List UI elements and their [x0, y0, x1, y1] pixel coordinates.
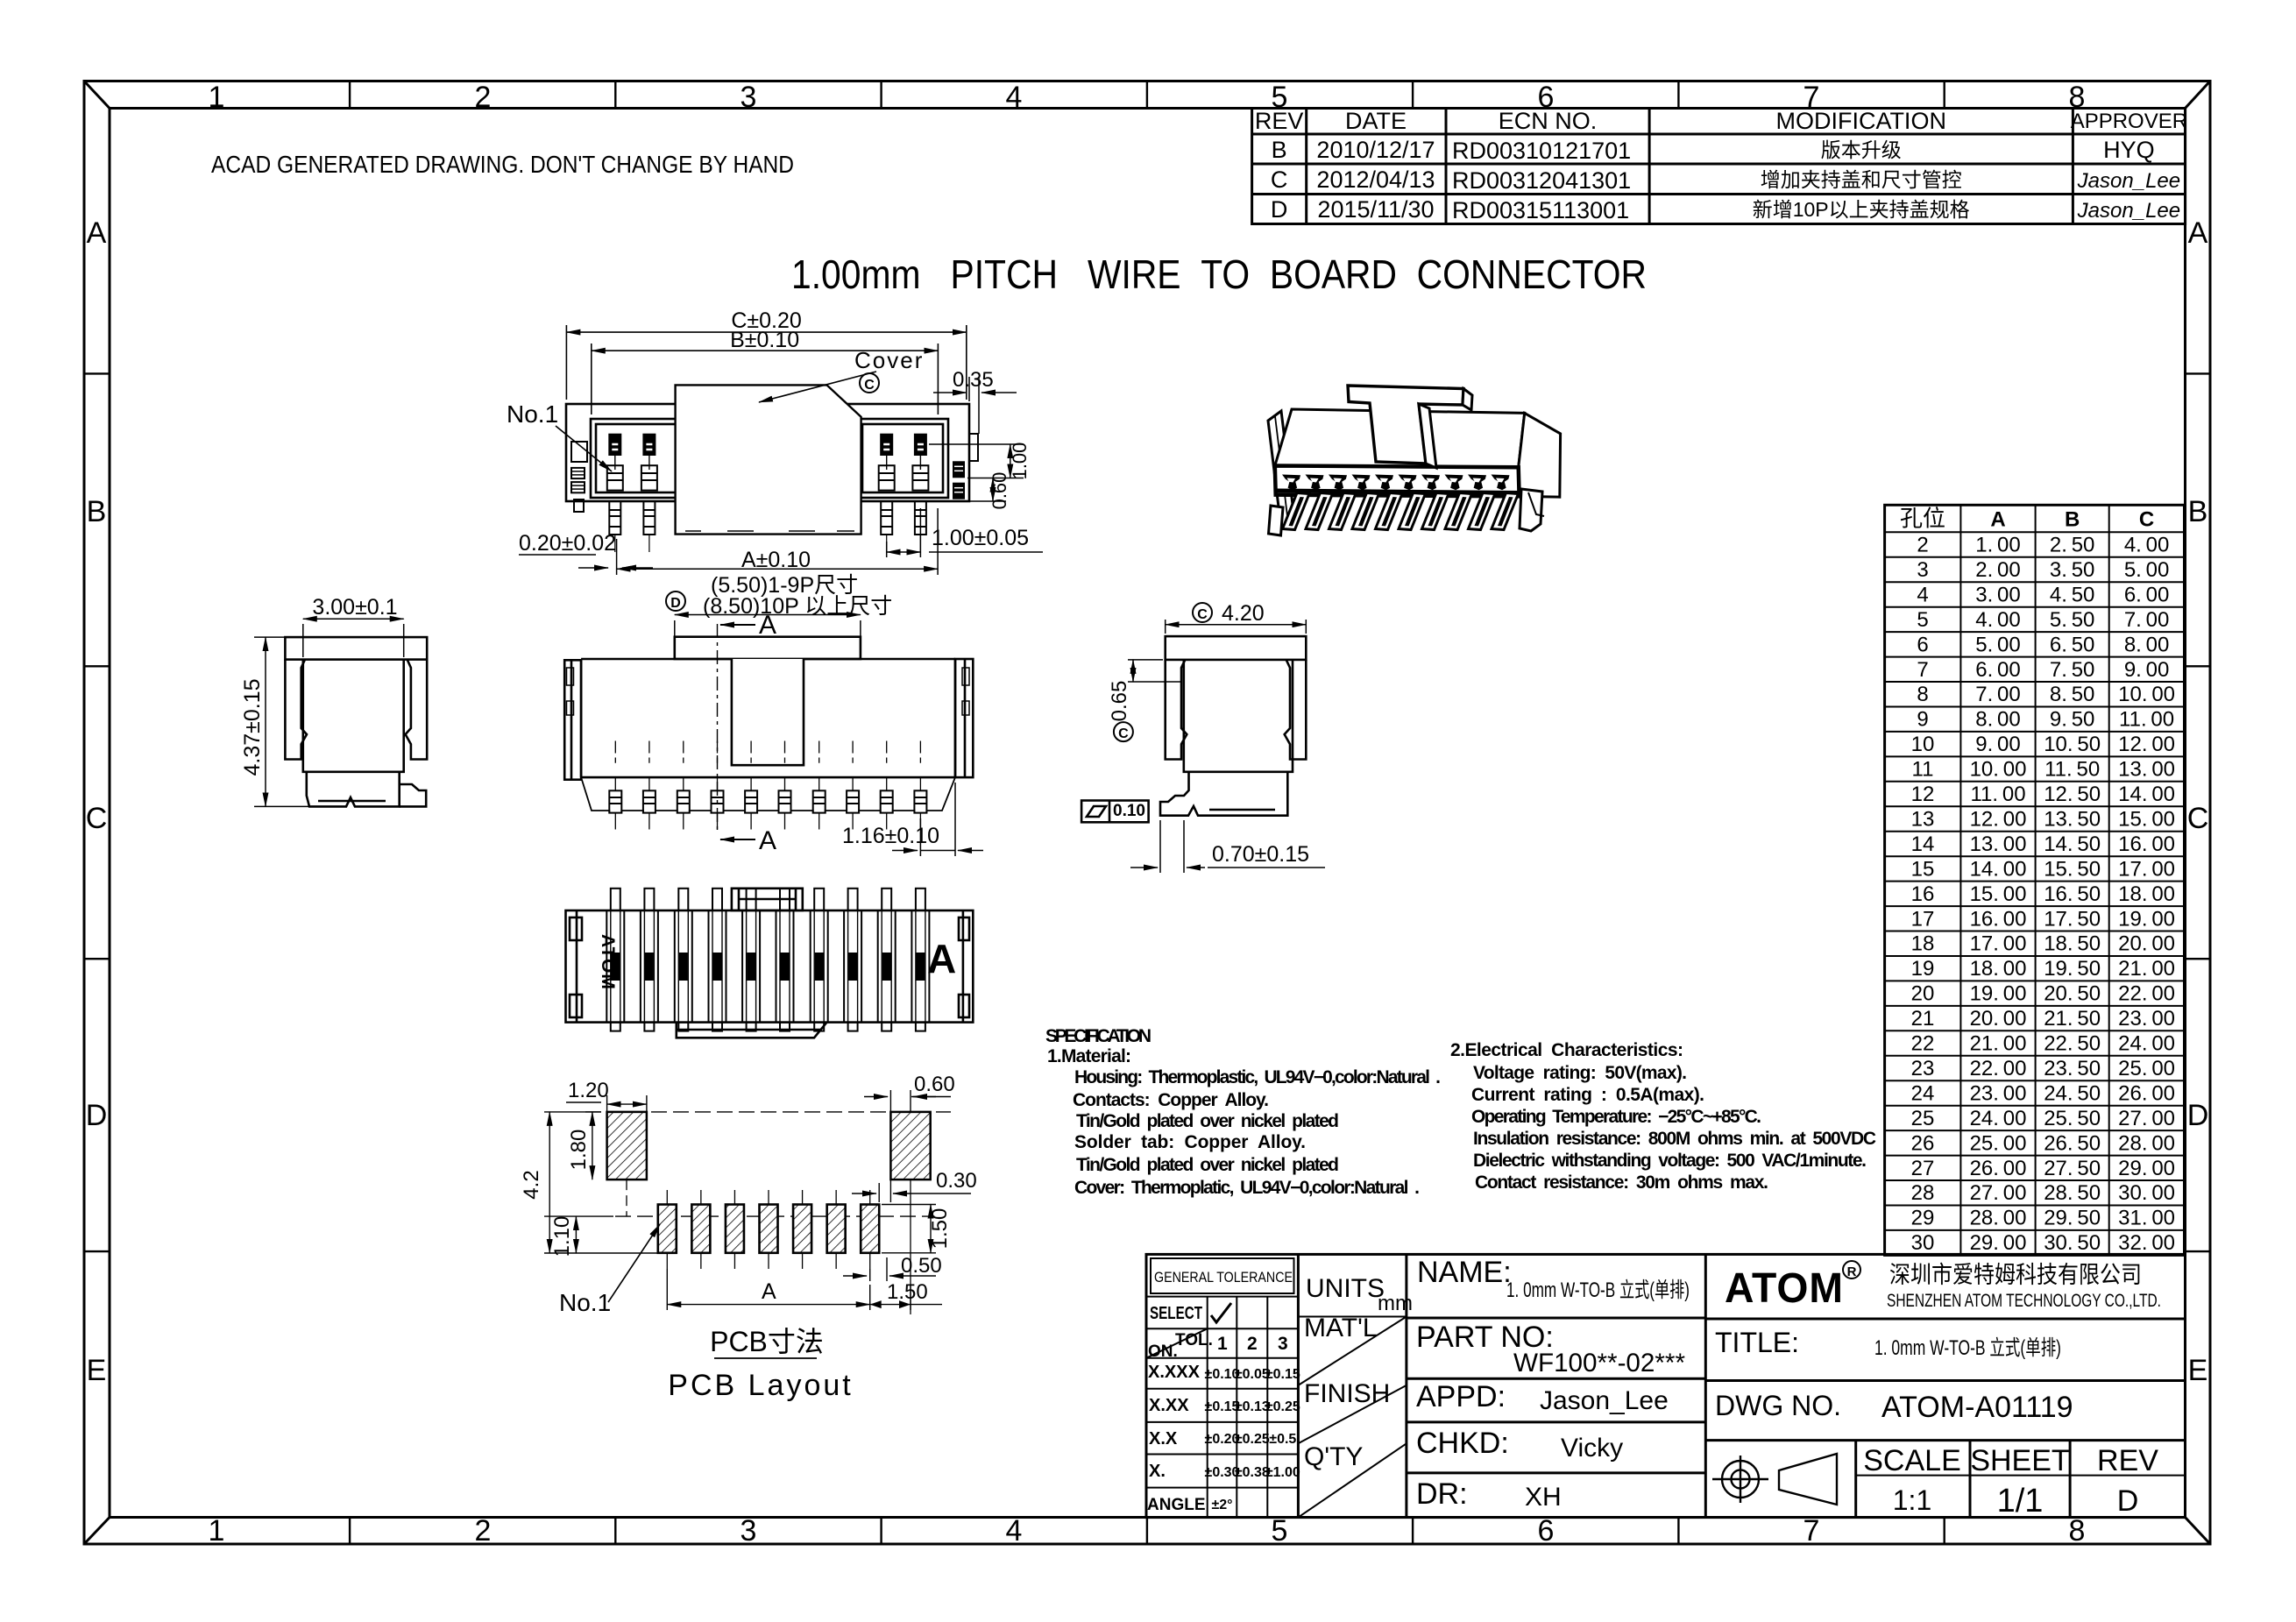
svg-text:0.65: 0.65: [1108, 681, 1131, 722]
svg-text:23: 23: [1911, 1057, 1935, 1080]
pin column x=934.7: [811, 889, 828, 1031]
svg-text:D: D: [2187, 1099, 2209, 1132]
svg-text:RD00315113001: RD00315113001: [1452, 197, 1629, 223]
svg-text:0.60: 0.60: [989, 472, 1010, 510]
svg-text:24. 50: 24. 50: [2044, 1081, 2101, 1105]
svg-text:ANGLE: ANGLE: [1147, 1496, 1206, 1514]
svg-text:8. 50: 8. 50: [2050, 683, 2095, 706]
svg-text:20. 00: 20. 00: [2118, 932, 2175, 956]
svg-text:1: 1: [1217, 1334, 1228, 1354]
pin contact at x=1011.7: [880, 434, 893, 456]
svg-text:A: A: [87, 216, 107, 250]
svg-text:2: 2: [1247, 1334, 1258, 1354]
svg-text:22: 22: [1911, 1032, 1935, 1056]
svg-text:15: 15: [1911, 857, 1935, 881]
pin contact at x=740.9: [642, 434, 655, 456]
svg-text:6. 50: 6. 50: [2050, 633, 2095, 656]
svg-text:Current rating : 0.5A(max).: Current rating : 0.5A(max).: [1471, 1085, 1704, 1105]
svg-text:11. 50: 11. 50: [2044, 758, 2100, 782]
svg-text:APPD:: APPD:: [1416, 1380, 1506, 1413]
svg-text:±0.15: ±0.15: [1265, 1367, 1300, 1382]
svg-text:2.Electrical Characteristics:: 2.Electrical Characteristics:: [1450, 1040, 1683, 1060]
svg-text:10: 10: [1911, 733, 1935, 756]
svg-text:No.1: No.1: [507, 400, 558, 428]
pin column x=973.1: [844, 889, 861, 1031]
svg-text:E: E: [87, 1354, 107, 1387]
svg-text:ATOM-A01119: ATOM-A01119: [1881, 1391, 2073, 1424]
svg-text:28. 00: 28. 00: [2118, 1131, 2175, 1155]
svg-text:11. 00: 11. 00: [2119, 708, 2174, 732]
pad 4: [760, 1205, 778, 1253]
svg-text:15. 00: 15. 00: [1970, 882, 2027, 906]
svg-text:4. 00: 4. 00: [1975, 608, 2021, 632]
svg-text:2: 2: [475, 1514, 492, 1548]
svg-text:26. 50: 26. 50: [2044, 1131, 2101, 1155]
svg-text:7: 7: [1803, 1514, 1820, 1548]
svg-text:Vicky: Vicky: [1561, 1434, 1623, 1463]
svg-text:C: C: [1197, 607, 1208, 622]
svg-text:30. 00: 30. 00: [2118, 1181, 2175, 1205]
svg-text:A: A: [762, 1279, 776, 1304]
svg-text:5: 5: [1272, 1514, 1288, 1548]
svg-text:No.1: No.1: [559, 1289, 611, 1316]
svg-text:9: 9: [1917, 708, 1928, 732]
svg-text:SHEET: SHEET: [1970, 1444, 2069, 1477]
svg-text:PCB寸法: PCB寸法: [710, 1326, 824, 1357]
svg-text:深圳市爱特姆科技有限公司: 深圳市爱特姆科技有限公司: [1889, 1262, 2142, 1288]
svg-text:Housing: Thermoplastic, UL94: Housing: Thermoplastic, UL94V−0,color:Na…: [1074, 1067, 1441, 1087]
pad 3: [726, 1205, 744, 1253]
pin column x=702.3: [606, 889, 624, 1031]
svg-text:22. 00: 22. 00: [1970, 1057, 2027, 1080]
svg-text:1: 1: [209, 81, 225, 114]
pad 1: [658, 1205, 677, 1253]
pad 6: [827, 1205, 846, 1253]
svg-text:UNITS: UNITS: [1306, 1274, 1385, 1303]
svg-text:Jason_Lee: Jason_Lee: [1540, 1386, 1669, 1415]
svg-text:28. 50: 28. 50: [2044, 1181, 2101, 1205]
svg-text:X.: X.: [1149, 1462, 1166, 1481]
svg-text:26. 00: 26. 00: [1970, 1157, 2027, 1180]
svg-text:1.16±0.10: 1.16±0.10: [842, 824, 939, 848]
svg-text:A: A: [759, 826, 776, 855]
svg-text:5. 50: 5. 50: [2050, 608, 2095, 632]
svg-text:12. 50: 12. 50: [2044, 783, 2101, 806]
svg-text:17. 00: 17. 00: [1970, 932, 2027, 956]
svg-text:1.00: 1.00: [1009, 443, 1031, 480]
svg-text:2012/04/13: 2012/04/13: [1316, 166, 1435, 193]
svg-text:13: 13: [1911, 808, 1935, 832]
svg-text:±0.25: ±0.25: [1265, 1399, 1300, 1414]
svg-text:D: D: [86, 1099, 108, 1132]
svg-text:5. 00: 5. 00: [1975, 633, 2021, 656]
svg-text:5. 00: 5. 00: [2124, 558, 2170, 582]
svg-text:8. 00: 8. 00: [2124, 633, 2170, 656]
svg-text:REV: REV: [2097, 1444, 2158, 1477]
svg-text:27: 27: [1911, 1157, 1935, 1180]
svg-text:Jason_Lee: Jason_Lee: [2077, 169, 2180, 193]
svg-text:19: 19: [1911, 957, 1935, 981]
svg-text:21. 50: 21. 50: [2044, 1007, 2101, 1031]
svg-text:ON.: ON.: [1148, 1342, 1178, 1361]
svg-text:TITLE:: TITLE:: [1715, 1327, 1799, 1358]
svg-text:CHKD:: CHKD:: [1416, 1427, 1509, 1460]
svg-text:B: B: [2188, 495, 2208, 528]
svg-text:SCALE: SCALE: [1863, 1444, 1961, 1477]
svg-text:Contacts: Copper Alloy.: Contacts: Copper Alloy.: [1073, 1090, 1269, 1110]
svg-text:ATOM: ATOM: [1725, 1265, 1844, 1312]
pad 7: [861, 1205, 879, 1253]
svg-text:2010/12/17: 2010/12/17: [1316, 137, 1435, 163]
svg-text:7. 50: 7. 50: [2050, 658, 2095, 682]
svg-text:WF100**-02***: WF100**-02***: [1513, 1349, 1685, 1378]
svg-text:17. 00: 17. 00: [2118, 857, 2175, 881]
svg-text:Dielectric withstanding volt: Dielectric withstanding voltage: 500 VAC…: [1473, 1151, 1867, 1171]
svg-text:19. 00: 19. 00: [1970, 982, 2027, 1006]
svg-text:X.XXX: X.XXX: [1148, 1363, 1201, 1382]
svg-text:Tin/Gold plated over nickel: Tin/Gold plated over nickel plated: [1076, 1155, 1339, 1175]
svg-text:1.00±0.05: 1.00±0.05: [932, 526, 1029, 550]
svg-text:1.Material:: 1.Material:: [1047, 1046, 1131, 1066]
svg-text:Insulation resistance: 800M: Insulation resistance: 800M ohms min. at…: [1473, 1129, 1876, 1149]
svg-text:28: 28: [1911, 1181, 1935, 1205]
pin column x=1050.4: [911, 889, 929, 1031]
svg-text:B±0.10: B±0.10: [730, 328, 799, 352]
svg-text:版本升级: 版本升级: [1821, 138, 1902, 161]
svg-text:APPROVER: APPROVER: [2071, 110, 2187, 133]
pad 5: [793, 1205, 811, 1253]
svg-text:26: 26: [1911, 1131, 1935, 1155]
svg-text:mm: mm: [1378, 1292, 1413, 1315]
svg-text:5: 5: [1917, 608, 1928, 632]
svg-text:新增10P以上夹持盖规格: 新增10P以上夹持盖规格: [1753, 198, 1970, 221]
svg-text:XH: XH: [1525, 1483, 1562, 1512]
svg-text:2. 50: 2. 50: [2050, 534, 2095, 557]
svg-text:15. 00: 15. 00: [2118, 808, 2175, 832]
svg-text:FINISH: FINISH: [1304, 1379, 1390, 1408]
svg-text:3: 3: [1917, 558, 1928, 582]
svg-text:14. 00: 14. 00: [1970, 857, 2027, 881]
svg-text:1. 0mm W-TO-B 立式(单排): 1. 0mm W-TO-B 立式(单排): [1506, 1278, 1690, 1302]
svg-text:1.50: 1.50: [928, 1208, 952, 1250]
svg-text:31. 00: 31. 00: [2118, 1207, 2175, 1230]
svg-text:19. 00: 19. 00: [2118, 907, 2175, 931]
svg-text:Operating Temperature: −25°C: Operating Temperature: −25°C~+85°C.: [1471, 1107, 1761, 1127]
svg-text:29. 50: 29. 50: [2044, 1207, 2101, 1230]
svg-text:1. 00: 1. 00: [1975, 534, 2021, 557]
svg-text:0.60: 0.60: [914, 1073, 955, 1096]
svg-text:RD00312041301: RD00312041301: [1452, 167, 1631, 194]
svg-text:6. 00: 6. 00: [2124, 583, 2170, 606]
svg-text:A: A: [1990, 507, 2005, 531]
svg-text:25. 00: 25. 00: [2118, 1057, 2175, 1080]
svg-text:GENERAL TOLERANCE: GENERAL TOLERANCE: [1154, 1270, 1293, 1286]
pin column x=818.5: [709, 889, 726, 1031]
svg-text:±0.25: ±0.25: [1235, 1432, 1270, 1447]
cover block: [676, 385, 861, 534]
svg-text:20. 50: 20. 50: [2044, 982, 2101, 1006]
svg-text:C: C: [2187, 802, 2209, 835]
svg-text:D: D: [1271, 196, 1288, 223]
svg-text:16. 00: 16. 00: [2118, 832, 2175, 856]
svg-text:4.2: 4.2: [520, 1170, 543, 1199]
svg-text:0.20±0.02: 0.20±0.02: [519, 531, 616, 556]
svg-text:10. 00: 10. 00: [2118, 683, 2175, 706]
svg-text:4. 50: 4. 50: [2050, 583, 2095, 606]
svg-text:17: 17: [1911, 907, 1935, 931]
svg-text:15. 50: 15. 50: [2044, 857, 2101, 881]
svg-text:7. 00: 7. 00: [2124, 608, 2170, 632]
svg-text:13. 50: 13. 50: [2044, 808, 2101, 832]
svg-text:20: 20: [1911, 982, 1935, 1006]
svg-text:18: 18: [1911, 932, 1935, 956]
svg-text:23. 00: 23. 00: [1970, 1081, 2027, 1105]
svg-text:1.10: 1.10: [550, 1216, 574, 1257]
svg-text:12. 00: 12. 00: [2118, 733, 2175, 756]
svg-text:23. 00: 23. 00: [2118, 1007, 2175, 1031]
svg-text:26. 00: 26. 00: [2118, 1081, 2175, 1105]
svg-text:9. 00: 9. 00: [2124, 658, 2170, 682]
svg-text:SELECT: SELECT: [1150, 1304, 1202, 1323]
svg-text:孔位: 孔位: [1900, 505, 1945, 531]
svg-text:0.70±0.15: 0.70±0.15: [1212, 842, 1309, 867]
svg-text:Cover: Thermoplatic, UL94V−0: Cover: Thermoplatic, UL94V−0,color:Natur…: [1074, 1178, 1420, 1198]
svg-text:1.00mm PITCH WIRE TO BOA: 1.00mm PITCH WIRE TO BOARD CONNECTOR: [791, 251, 1647, 297]
svg-text:7. 00: 7. 00: [1975, 683, 2021, 706]
svg-text:11. 00: 11. 00: [1970, 783, 2025, 806]
svg-text:Jason_Lee: Jason_Lee: [2077, 199, 2180, 223]
svg-text:3.00±0.1: 3.00±0.1: [312, 595, 397, 620]
svg-text:MAT'L: MAT'L: [1304, 1314, 1378, 1342]
svg-text:25: 25: [1911, 1107, 1935, 1130]
svg-text:E: E: [2188, 1354, 2208, 1387]
pin column x=895.5: [776, 889, 794, 1031]
svg-text:19. 50: 19. 50: [2044, 957, 2101, 981]
svg-text:21. 00: 21. 00: [2118, 957, 2175, 981]
svg-text:DWG NO.: DWG NO.: [1715, 1390, 1841, 1421]
svg-text:SHENZHEN ATOM TECHNOLOGY CO.,L: SHENZHEN ATOM TECHNOLOGY CO.,LTD.: [1887, 1291, 2161, 1311]
svg-text:DATE: DATE: [1345, 108, 1407, 134]
svg-text:TOL.: TOL.: [1175, 1331, 1213, 1349]
svg-text:14: 14: [1911, 832, 1935, 856]
svg-text:±1.00: ±1.00: [1265, 1465, 1300, 1480]
svg-text:1:1: 1:1: [1893, 1484, 1931, 1516]
svg-text:3. 50: 3. 50: [2050, 558, 2095, 582]
svg-text:21: 21: [1911, 1007, 1935, 1031]
svg-text:1/1: 1/1: [1997, 1483, 2044, 1519]
svg-text:1.20: 1.20: [568, 1079, 609, 1102]
svg-text:3: 3: [1278, 1334, 1288, 1354]
svg-text:C: C: [864, 378, 875, 393]
svg-text:16: 16: [1911, 882, 1935, 906]
svg-text:24. 00: 24. 00: [1970, 1107, 2027, 1130]
svg-text:14. 00: 14. 00: [2118, 783, 2175, 806]
svg-text:A: A: [759, 611, 776, 640]
svg-text:24. 00: 24. 00: [2118, 1032, 2175, 1056]
svg-text:28. 00: 28. 00: [1970, 1207, 2027, 1230]
svg-text:HYQ: HYQ: [2103, 137, 2155, 163]
svg-text:B: B: [87, 495, 107, 528]
svg-text:4: 4: [1006, 1514, 1023, 1548]
svg-text:16. 50: 16. 50: [2044, 882, 2101, 906]
svg-text:10. 50: 10. 50: [2044, 733, 2101, 756]
svg-text:4.37±0.15: 4.37±0.15: [240, 678, 265, 776]
pin column x=1011.7: [878, 889, 896, 1031]
svg-text:1.50: 1.50: [887, 1280, 928, 1304]
svg-text:22. 50: 22. 50: [2044, 1032, 2101, 1056]
svg-text:3: 3: [741, 1514, 757, 1548]
svg-text:C: C: [2139, 507, 2154, 531]
svg-text:MODIFICATION: MODIFICATION: [1775, 108, 1945, 134]
svg-text:PCB Layout: PCB Layout: [668, 1369, 853, 1402]
svg-text:Tin/Gold plated over nickel: Tin/Gold plated over nickel plated: [1076, 1111, 1339, 1131]
svg-text:Solder tab: Copper Alloy.: Solder tab: Copper Alloy.: [1074, 1132, 1306, 1152]
svg-text:Cover: Cover: [854, 347, 924, 373]
svg-text:30: 30: [1911, 1231, 1935, 1255]
pin column x=740.9: [641, 889, 658, 1031]
svg-text:4: 4: [1917, 583, 1928, 606]
svg-text:Contact resistance: 30m ohm: Contact resistance: 30m ohms max.: [1475, 1172, 1768, 1193]
svg-text:X.XX: X.XX: [1149, 1396, 1189, 1415]
pin contact at x=701.8: [608, 434, 621, 456]
svg-text:增加夹持盖和尺寸管控: 增加夹持盖和尺寸管控: [1761, 168, 1962, 191]
svg-text:25. 50: 25. 50: [2044, 1107, 2101, 1130]
svg-text:29. 00: 29. 00: [2118, 1157, 2175, 1180]
svg-text:NAME:: NAME:: [1417, 1256, 1512, 1289]
svg-text:12: 12: [1911, 783, 1935, 806]
svg-text:32. 00: 32. 00: [2118, 1231, 2175, 1255]
svg-text:27. 50: 27. 50: [2044, 1157, 2101, 1180]
svg-text:8: 8: [1917, 683, 1928, 706]
svg-text:30. 50: 30. 50: [2044, 1231, 2101, 1255]
svg-text:D: D: [2117, 1484, 2139, 1518]
svg-text:6. 00: 6. 00: [1975, 658, 2021, 682]
svg-text:21. 00: 21. 00: [1970, 1032, 2027, 1056]
svg-text:18. 00: 18. 00: [2118, 882, 2175, 906]
svg-text:A: A: [927, 936, 956, 981]
svg-text:±0.5: ±0.5: [1269, 1432, 1296, 1447]
svg-text:C: C: [86, 802, 108, 835]
svg-text:C: C: [1118, 726, 1129, 741]
svg-text:13. 00: 13. 00: [1970, 832, 2027, 856]
svg-text:17. 50: 17. 50: [2044, 907, 2101, 931]
svg-text:29: 29: [1911, 1207, 1935, 1230]
svg-text:24: 24: [1911, 1081, 1935, 1105]
svg-text:14. 50: 14. 50: [2044, 832, 2101, 856]
svg-text:X.X: X.X: [1149, 1429, 1178, 1448]
pad 2: [691, 1205, 710, 1253]
svg-text:3: 3: [741, 81, 757, 114]
svg-text:27. 00: 27. 00: [1970, 1181, 2027, 1205]
svg-text:8: 8: [2069, 1514, 2086, 1548]
svg-text:A: A: [2188, 216, 2208, 250]
svg-text:29. 00: 29. 00: [1970, 1231, 2027, 1255]
svg-text:2: 2: [1917, 534, 1928, 557]
svg-text:7: 7: [1917, 658, 1928, 682]
svg-text:12. 00: 12. 00: [1970, 808, 2027, 832]
svg-text:25. 00: 25. 00: [1970, 1131, 2027, 1155]
svg-text:D: D: [670, 596, 681, 611]
svg-text:Voltage rating: 50V(max).: Voltage rating: 50V(max).: [1473, 1063, 1687, 1083]
svg-text:DR:: DR:: [1416, 1477, 1468, 1511]
svg-text:6: 6: [1538, 1514, 1555, 1548]
pin column x=857.1: [742, 889, 760, 1031]
pin contact at x=1050.4: [914, 434, 927, 456]
svg-text:Q'TY: Q'TY: [1304, 1442, 1363, 1471]
svg-text:9. 50: 9. 50: [2050, 708, 2095, 732]
svg-text:6: 6: [1917, 633, 1928, 656]
svg-text:18. 50: 18. 50: [2044, 932, 2101, 956]
svg-text:0.50: 0.50: [901, 1254, 942, 1278]
pin column x=779.8: [675, 889, 692, 1031]
svg-text:2: 2: [475, 81, 492, 114]
svg-text:ACAD GENERATED DRAWING. DON'T: ACAD GENERATED DRAWING. DON'T CHANGE BY …: [211, 151, 794, 178]
svg-text:SPECIFICATION: SPECIFICATION: [1045, 1026, 1152, 1046]
svg-text:10. 00: 10. 00: [1970, 758, 2027, 782]
svg-text:1.80: 1.80: [567, 1130, 591, 1171]
svg-text:2015/11/30: 2015/11/30: [1317, 196, 1434, 223]
svg-text:0.10: 0.10: [1113, 802, 1145, 820]
svg-text:1. 0mm W-TO-B 立式(单排): 1. 0mm W-TO-B 立式(单排): [1874, 1336, 2061, 1360]
svg-text:27. 00: 27. 00: [2118, 1107, 2175, 1130]
svg-text:ECN NO.: ECN NO.: [1499, 108, 1598, 134]
svg-text:R: R: [1847, 1264, 1857, 1279]
svg-text:13. 00: 13. 00: [2118, 758, 2175, 782]
svg-text:4.20: 4.20: [1222, 601, 1265, 626]
svg-text:0.35: 0.35: [953, 368, 994, 392]
svg-text:9. 00: 9. 00: [1975, 733, 2021, 756]
svg-text:C: C: [1271, 166, 1288, 193]
svg-text:B: B: [1272, 137, 1287, 163]
svg-text:RD00310121701: RD00310121701: [1452, 138, 1631, 164]
svg-text:REV: REV: [1255, 108, 1304, 134]
svg-text:B: B: [2065, 507, 2080, 531]
svg-text:2. 00: 2. 00: [1975, 558, 2021, 582]
svg-text:1: 1: [209, 1514, 225, 1548]
svg-text:0.30: 0.30: [936, 1169, 977, 1193]
svg-text:8. 00: 8. 00: [1975, 708, 2021, 732]
svg-text:23. 50: 23. 50: [2044, 1057, 2101, 1080]
svg-text:4: 4: [1006, 81, 1023, 114]
svg-text:11: 11: [1912, 758, 1934, 782]
svg-text:3. 00: 3. 00: [1975, 583, 2021, 606]
svg-text:18. 00: 18. 00: [1970, 957, 2027, 981]
svg-text:20. 00: 20. 00: [1970, 1007, 2027, 1031]
svg-text:16. 00: 16. 00: [1970, 907, 2027, 931]
svg-text:4. 00: 4. 00: [2124, 534, 2170, 557]
svg-text:22. 00: 22. 00: [2118, 982, 2175, 1006]
svg-text:±2°: ±2°: [1211, 1498, 1232, 1512]
